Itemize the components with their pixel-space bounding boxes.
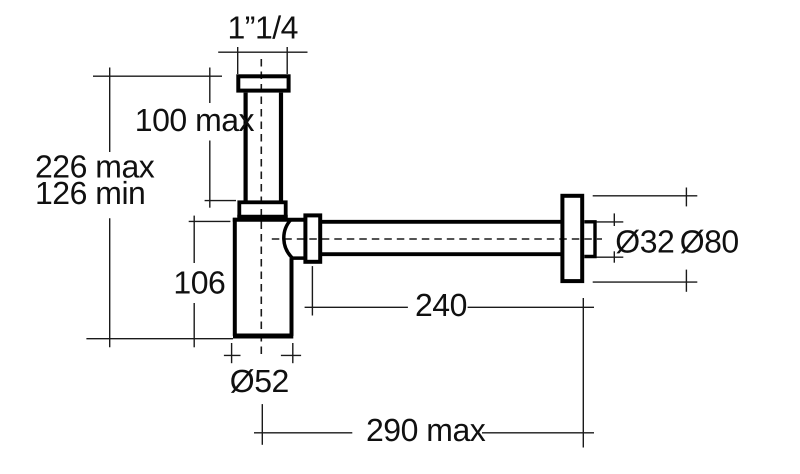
- pipe stub: [584, 222, 595, 257]
- dim D80 line lower: [685, 270, 687, 292]
- svg-text:290 max: 290 max: [366, 412, 486, 448]
- vertical centerline: [260, 59, 262, 355]
- svg-text:106: 106: [173, 265, 225, 301]
- dim 240 line right: [468, 306, 594, 308]
- dim 1"1/4 line: [218, 51, 307, 53]
- dim 290max line right: [482, 432, 594, 434]
- tailpiece pipe wall left: [244, 93, 248, 202]
- dim D32 line upper: [613, 213, 615, 226]
- dim D80 ext bottom: [593, 281, 698, 283]
- ext line flange top: [93, 75, 222, 77]
- dim 240 line left: [305, 306, 408, 308]
- dim D32 ext bottom: [597, 256, 624, 258]
- svg-text:100 max: 100 max: [135, 102, 255, 138]
- ext line body bottom: [86, 338, 233, 340]
- dim 106 line upper: [193, 216, 195, 263]
- svg-text:1”1/4: 1”1/4: [228, 10, 298, 46]
- wall flange: [562, 196, 582, 281]
- trap body top edge: [233, 218, 304, 222]
- dim 1"1/4 ext left: [237, 47, 239, 74]
- dim 290max line left: [254, 432, 352, 434]
- outlet nut: [305, 215, 320, 261]
- horizontal pipe bottom wall: [322, 252, 561, 256]
- dim 226/126 line lower: [109, 218, 111, 347]
- trap top nut bottom band: [237, 215, 287, 220]
- svg-text:126 min: 126 min: [35, 175, 145, 211]
- dim 240 ext left: [311, 266, 313, 315]
- dim D32 line lower: [613, 251, 615, 262]
- svg-text:240: 240: [415, 287, 467, 323]
- dim 100max line lower: [209, 141, 211, 208]
- horizontal centerline: [272, 238, 602, 240]
- elbow: [284, 220, 304, 259]
- trap body bottom band: [233, 334, 293, 339]
- dim D80 line upper: [685, 188, 687, 207]
- dim 290max ext left: [261, 404, 263, 445]
- shared ext right: [582, 298, 584, 448]
- trap top nut: [239, 202, 285, 217]
- ext line nut top: [205, 200, 236, 202]
- svg-text:Ø80: Ø80: [680, 223, 739, 259]
- dim D52 tick right: [292, 343, 294, 363]
- dim D32 ext top: [597, 221, 624, 223]
- svg-text:Ø52: Ø52: [230, 363, 289, 399]
- tailpiece pipe wall right: [279, 93, 283, 202]
- trap body left wall: [233, 218, 237, 336]
- dim 106 line lower: [193, 303, 195, 347]
- horizontal pipe top wall: [322, 220, 561, 224]
- dim D52 tick left: [231, 343, 233, 363]
- ext line body top: [189, 220, 231, 222]
- dim D80 ext top: [593, 195, 698, 197]
- top flange: [238, 76, 288, 90]
- dim D52 line right: [281, 354, 301, 356]
- dim 226/126 line upper: [109, 68, 111, 153]
- dim 1"1/4 ext right: [286, 47, 288, 74]
- dim D52 line left: [224, 354, 241, 356]
- dim 100max line upper: [209, 68, 211, 104]
- trap body right wall: [290, 258, 294, 336]
- svg-text:Ø32: Ø32: [615, 223, 674, 259]
